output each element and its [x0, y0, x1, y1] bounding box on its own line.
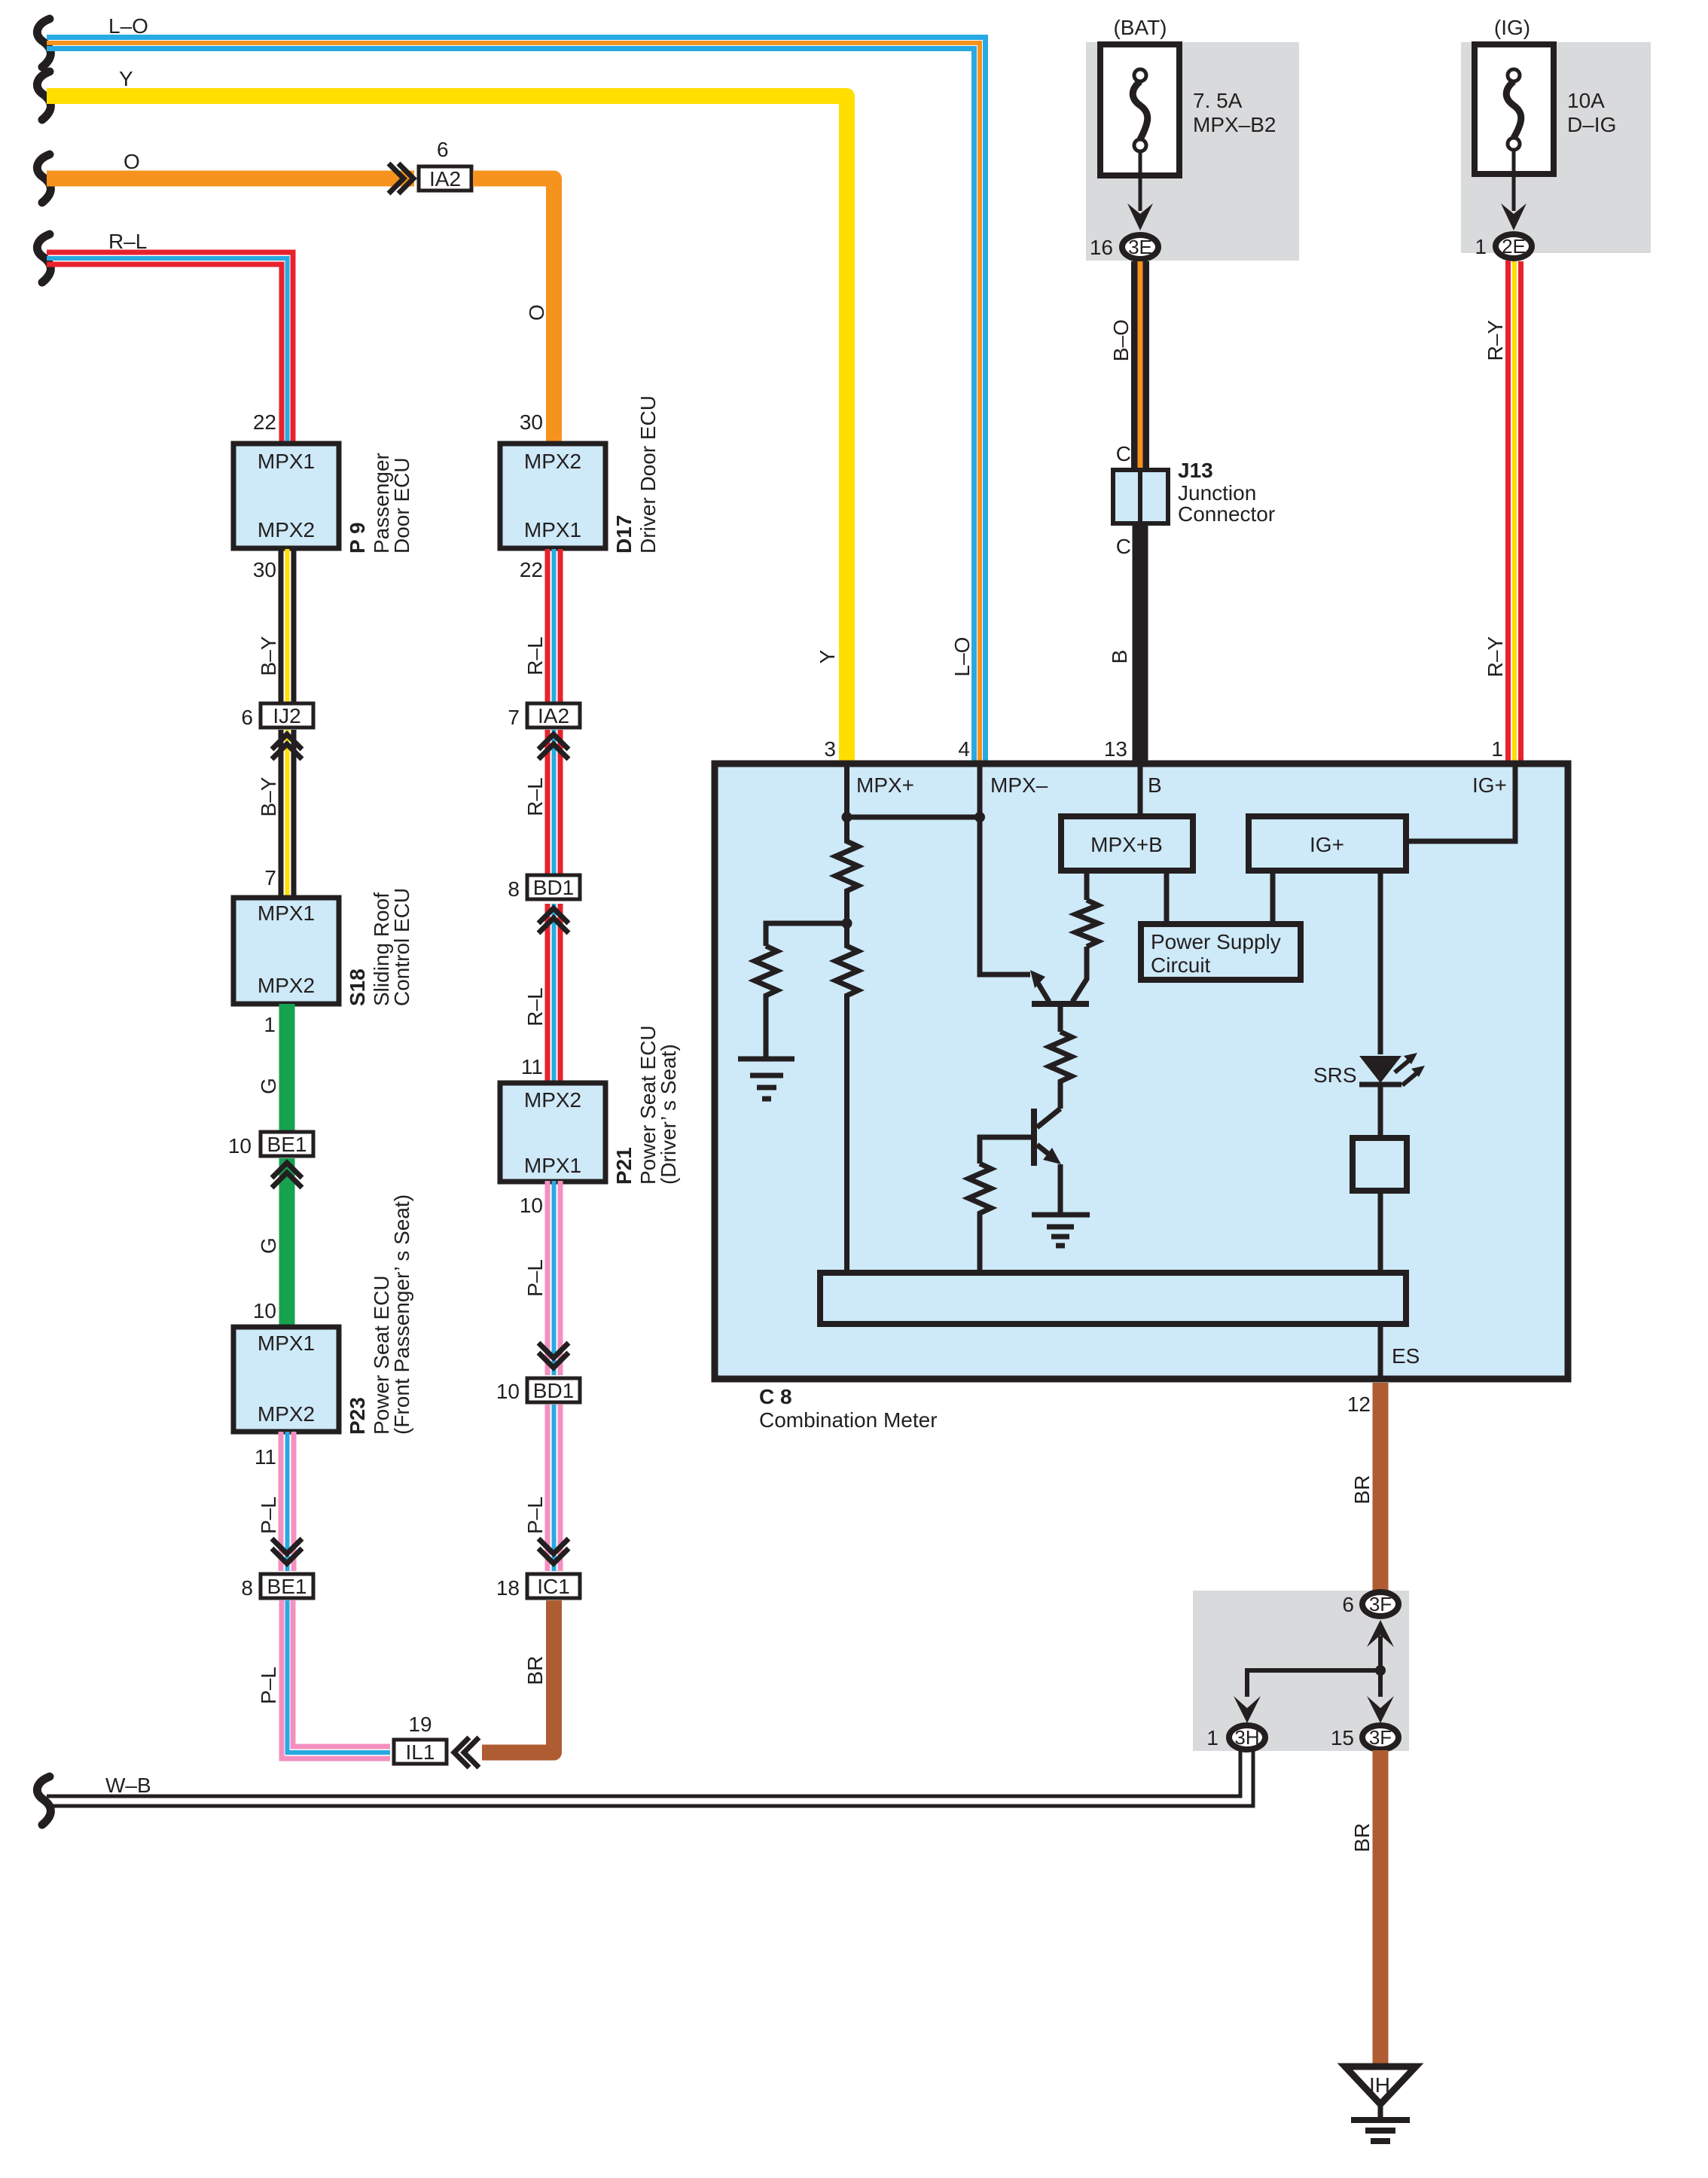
svg-text:P 9: P 9	[346, 522, 369, 554]
svg-text:IG+: IG+	[1310, 833, 1344, 856]
svg-text:P–L: P–L	[523, 1496, 547, 1534]
chevrons pointing up below connector BD1	[538, 908, 569, 933]
label S18 Sliding Roof Control ECU	[346, 888, 413, 1006]
wire W-B (white with black outline) from left edge to connector 3H	[47, 1750, 1253, 1806]
ECU box D17 (Driver Door ECU)	[500, 444, 605, 548]
wire R-L (red/blue/red) from left edge to pin 22 of P9	[47, 252, 293, 443]
svg-text:Door ECU: Door ECU	[390, 457, 413, 554]
wire MPX- node to transistor Q1 emitter	[980, 817, 1030, 975]
wire IG+ box to power supply circuit	[1270, 871, 1276, 924]
svg-text:(IG): (IG)	[1494, 16, 1530, 39]
svg-text:6: 6	[1342, 1593, 1354, 1616]
svg-text:IA2: IA2	[429, 167, 461, 191]
svg-text:Driver Door ECU: Driver Door ECU	[636, 395, 660, 554]
wire R-Y (red/yellow/red) from connector 2E to pin 1 of combination meter	[1508, 261, 1521, 762]
svg-text:12: 12	[1347, 1393, 1371, 1416]
svg-text:P23: P23	[346, 1397, 369, 1435]
svg-text:W–B: W–B	[105, 1774, 151, 1797]
svg-text:B–Y: B–Y	[257, 776, 280, 816]
wire IG+ box to SRS LED	[1378, 871, 1383, 1054]
svg-text:B: B	[1148, 773, 1162, 797]
ground G2 (inside meter, under Q2)	[1032, 1215, 1090, 1246]
svg-text:MPX2: MPX2	[524, 450, 581, 473]
wire MPX- pin line	[978, 767, 983, 817]
svg-text:Power Supply: Power Supply	[1151, 930, 1281, 953]
label P23 Power Seat ECU (Front Passenger's Seat)	[346, 1194, 413, 1435]
label J13 Junction Connector	[1178, 459, 1275, 526]
resistor R1 (on MPX+ line)	[836, 817, 859, 923]
svg-text:D–IG: D–IG	[1567, 113, 1616, 136]
wire B-Y (black/yellow/black) from pin 30 of P9 to connector IJ2	[281, 549, 294, 702]
junction dot	[1375, 1665, 1386, 1676]
svg-text:8: 8	[241, 1576, 253, 1600]
LED SRS indicator	[1359, 1053, 1425, 1085]
wire-break brace (Y wire)	[37, 72, 50, 120]
wire from node to R2	[766, 923, 847, 946]
ground symbol (bottom)	[1351, 2120, 1410, 2141]
junction block gray box (BAT side)	[1086, 42, 1299, 261]
wire ground stem	[1378, 2105, 1383, 2119]
wire O (orange) from left edge to connector IA2	[47, 171, 414, 187]
svg-text:Control ECU: Control ECU	[390, 888, 413, 1006]
svg-text:19: 19	[408, 1713, 432, 1736]
svg-text:R–L: R–L	[523, 636, 547, 675]
wire ES pin line	[1378, 1324, 1383, 1376]
svg-text:3: 3	[824, 737, 836, 761]
svg-text:P–L: P–L	[257, 1667, 280, 1704]
svg-text:MPX1: MPX1	[524, 518, 581, 541]
wire MPX+B box to R4	[1084, 874, 1090, 900]
svg-text:3F: 3F	[1369, 1726, 1392, 1749]
svg-text:7: 7	[264, 866, 276, 889]
arrow down above connector 3H	[1234, 1696, 1261, 1723]
wire P-L from connector BD1 lower to connector IC1	[547, 1405, 560, 1571]
internal box power supply circuit	[1141, 924, 1301, 980]
wire R-L from pin 22 of D17 to connector IA2	[547, 549, 560, 702]
fuse 7.5A MPX-B2	[1133, 69, 1148, 151]
chevrons pointing down above connector BE1 lower	[272, 1539, 302, 1563]
svg-text:BR: BR	[1350, 1823, 1374, 1853]
svg-text:22: 22	[253, 410, 276, 434]
svg-text:10: 10	[228, 1134, 252, 1158]
wire-break brace (R-L wire)	[37, 234, 50, 282]
connector IJ2	[261, 703, 313, 728]
wire resistor block to bus bar	[1378, 1191, 1383, 1273]
svg-text:Y: Y	[119, 67, 133, 90]
ECU box P21 (Power Seat ECU Driver's Seat)	[500, 1083, 605, 1182]
wire BR (brown) from connector 3F lower to ground IH	[1373, 1750, 1389, 2065]
wire-break brace (W-B wire)	[37, 1777, 50, 1825]
wire B (black) from junction connector J13 to pin 13 of combination meter	[1133, 523, 1148, 762]
wire G (green) from pin 1 of S18 to connector BE1	[279, 1004, 295, 1131]
svg-text:11: 11	[255, 1445, 276, 1469]
svg-text:B: B	[1108, 650, 1131, 664]
svg-text:B–Y: B–Y	[257, 636, 280, 676]
svg-text:O: O	[525, 304, 548, 321]
chevrons pointing down above connector BD1 lower	[538, 1343, 569, 1368]
svg-text:BD1: BD1	[533, 1379, 574, 1402]
connector BD1 (lower)	[527, 1378, 580, 1402]
svg-text:S18: S18	[346, 969, 369, 1006]
svg-text:10A: 10A	[1567, 89, 1605, 112]
svg-text:R–L: R–L	[108, 230, 147, 253]
fuse box D-IG	[1475, 44, 1554, 174]
wire from arrow to junction dot	[1378, 1636, 1383, 1670]
svg-text:R–L: R–L	[523, 987, 547, 1026]
node dot MPX+	[842, 812, 852, 822]
wire L-O (blue/orange/blue) from left edge to combination meter pin 4	[47, 38, 986, 763]
svg-text:10: 10	[253, 1299, 276, 1322]
resistor R5 (between Q1 and Q2)	[1049, 1032, 1072, 1109]
svg-text:R–L: R–L	[523, 777, 547, 816]
junction block gray box (bottom)	[1193, 1591, 1409, 1751]
label D17 Driver Door ECU	[612, 395, 660, 554]
resistor R2 (to ground)	[755, 946, 777, 1057]
svg-text:16: 16	[1090, 236, 1113, 259]
svg-text:3F: 3F	[1369, 1593, 1392, 1615]
label P 9 Passenger Door ECU	[346, 453, 413, 554]
svg-text:BE1: BE1	[267, 1575, 307, 1598]
connector IA2 (middle)	[527, 703, 580, 728]
connector 3F (upper)	[1362, 1592, 1398, 1616]
connector BE1 (lower)	[261, 1574, 313, 1598]
wire R-L from connector IA2 to connector BD1	[547, 730, 560, 875]
svg-text:B–O: B–O	[1109, 319, 1133, 361]
wire MPX+ pin line	[844, 767, 849, 817]
svg-text:13: 13	[1104, 737, 1127, 761]
wire from fuse to connector 3E	[1139, 151, 1142, 211]
transistor Q1 (PNP, MPX comparator)	[1030, 947, 1089, 1032]
arrow into connector 3E	[1127, 203, 1153, 230]
svg-text:MPX2: MPX2	[258, 1402, 315, 1426]
resistor R6 (Q2 base to bus bar)	[968, 1164, 991, 1273]
node dot MPX-	[974, 812, 985, 822]
svg-text:10: 10	[520, 1194, 543, 1217]
svg-text:7. 5A: 7. 5A	[1193, 89, 1243, 112]
wire-break brace (L-O wire)	[37, 19, 50, 67]
svg-text:Circuit: Circuit	[1151, 953, 1211, 977]
chevrons pointing right into connector IA2	[389, 163, 413, 194]
internal box IG+	[1249, 816, 1406, 871]
svg-text:BR: BR	[1350, 1475, 1374, 1505]
fuse 10A D-IG	[1506, 69, 1521, 150]
internal bus bar	[820, 1273, 1406, 1324]
svg-text:MPX2: MPX2	[258, 518, 315, 541]
svg-text:P–L: P–L	[257, 1496, 280, 1534]
svg-text:8: 8	[508, 877, 520, 901]
svg-text:G: G	[257, 1078, 280, 1094]
svg-text:IH: IH	[1369, 2073, 1390, 2097]
svg-text:IA2: IA2	[538, 704, 569, 728]
svg-text:MPX–: MPX–	[990, 773, 1048, 797]
svg-text:MPX1: MPX1	[258, 901, 315, 925]
internal resistor block (square)	[1353, 1138, 1407, 1191]
wire R-L from connector BD1 to pin 11 of P21	[547, 904, 560, 1082]
internal box MPX+B	[1061, 816, 1193, 871]
wire from fuse to connector 2E	[1512, 150, 1516, 211]
combination meter C8 box	[715, 764, 1568, 1379]
wire BR (brown) from connector IC1 to connector IL1	[482, 1600, 554, 1752]
svg-text:MPX1: MPX1	[524, 1154, 581, 1177]
connector BD1 (upper)	[527, 875, 580, 899]
svg-text:MPX+: MPX+	[856, 773, 914, 797]
wire Q2 base to R6	[980, 1137, 1031, 1164]
junction block gray box (IG side)	[1461, 42, 1651, 253]
node dot below R1	[842, 918, 852, 929]
svg-text:Connector: Connector	[1178, 502, 1275, 526]
svg-text:4: 4	[958, 737, 970, 761]
svg-text:IC1: IC1	[537, 1575, 570, 1598]
svg-text:O: O	[124, 150, 140, 173]
svg-text:P–L: P–L	[523, 1259, 547, 1297]
wire P-L (pink/blue/pink) from pin 11 of P23 to connector BE1 lower	[281, 1432, 294, 1571]
wire between MPX+ and MPX- nodes	[847, 815, 981, 820]
svg-text:18: 18	[496, 1576, 520, 1600]
svg-text:L–O: L–O	[950, 637, 974, 677]
svg-text:BR: BR	[523, 1656, 547, 1685]
svg-text:MPX1: MPX1	[258, 1332, 315, 1355]
svg-text:(Driver’ s Seat): (Driver’ s Seat)	[657, 1044, 680, 1185]
svg-text:BD1: BD1	[533, 876, 574, 899]
svg-text:MPX–B2: MPX–B2	[1193, 113, 1276, 136]
ground triangle IH	[1345, 2067, 1416, 2104]
wire from junction dot to 3H branch	[1247, 1670, 1380, 1697]
svg-text:1: 1	[1206, 1726, 1218, 1749]
svg-text:MPX2: MPX2	[524, 1088, 581, 1112]
arrow into connector 2E	[1501, 203, 1527, 230]
svg-text:1: 1	[264, 1013, 276, 1036]
svg-text:SRS: SRS	[1313, 1063, 1357, 1087]
wire-break brace (O wire)	[37, 154, 50, 203]
svg-text:Y: Y	[816, 649, 839, 663]
chevrons pointing up below connector IJ2	[272, 734, 302, 759]
svg-text:IJ2: IJ2	[273, 704, 300, 728]
svg-text:L–O: L–O	[108, 14, 148, 38]
svg-text:11: 11	[521, 1055, 543, 1078]
svg-text:C 8: C 8	[759, 1385, 792, 1408]
chevrons pointing down above connector IC1	[538, 1539, 569, 1563]
svg-text:G: G	[257, 1237, 280, 1254]
svg-text:P21: P21	[612, 1147, 636, 1185]
wire B-Y from connector IJ2 to pin 7 of S18	[281, 730, 294, 897]
junction connector J13	[1113, 468, 1168, 526]
svg-text:BE1: BE1	[267, 1133, 307, 1156]
svg-text:22: 22	[520, 558, 543, 581]
wire from junction dot to 3F lower	[1378, 1670, 1383, 1697]
arrow up below connector 3F	[1367, 1620, 1394, 1647]
svg-text:IG+: IG+	[1472, 773, 1507, 797]
wire P-L from pin 10 of P21 to connector BD1 lower	[547, 1181, 560, 1375]
svg-text:2E: 2E	[1502, 235, 1526, 258]
svg-text:D17: D17	[612, 515, 636, 554]
svg-text:30: 30	[520, 410, 543, 434]
svg-text:6: 6	[437, 138, 449, 161]
connector 3F (lower)	[1362, 1725, 1398, 1749]
svg-text:ES: ES	[1392, 1344, 1420, 1368]
ECU box P23 (Power Seat ECU Front Passenger's Seat)	[233, 1327, 339, 1432]
svg-text:Combination Meter: Combination Meter	[759, 1408, 938, 1432]
connector 3H	[1229, 1725, 1265, 1749]
svg-text:30: 30	[253, 558, 276, 581]
svg-text:(Front Passenger’ s Seat): (Front Passenger’ s Seat)	[390, 1194, 413, 1435]
connector IA2 (top)	[419, 166, 471, 191]
svg-text:Junction: Junction	[1178, 481, 1256, 505]
svg-text:1: 1	[1475, 235, 1487, 258]
ground G1 (inside meter, left)	[738, 1059, 795, 1099]
wire B pin to MPX+B box	[1138, 767, 1143, 816]
connector 2E	[1496, 234, 1532, 258]
wire IG+ pin to IG+ box	[1406, 767, 1515, 841]
svg-text:15: 15	[1331, 1726, 1354, 1749]
svg-text:(BAT): (BAT)	[1113, 16, 1167, 39]
svg-text:MPX1: MPX1	[258, 450, 315, 473]
arrow down above connector 3F lower	[1367, 1696, 1394, 1723]
connector IL1	[394, 1740, 447, 1764]
svg-text:J13: J13	[1178, 459, 1213, 482]
connector BE1 (upper)	[261, 1132, 313, 1156]
wire MPX+B box to power supply circuit	[1164, 871, 1170, 924]
svg-text:7: 7	[508, 706, 520, 729]
wire O (orange) from connector IA2 to pin 30 of D17	[473, 178, 554, 443]
wire BR (brown) from ES pin to connector 3F	[1373, 1383, 1389, 1592]
transistor Q2 (NPN, to ground)	[1031, 1109, 1061, 1215]
connector 3E	[1122, 235, 1158, 259]
ECU box S18 (Sliding Roof Control ECU)	[233, 898, 339, 1004]
svg-text:C: C	[1116, 535, 1131, 558]
chevrons pointing left out of connector IL1	[454, 1737, 479, 1768]
connector IC1	[527, 1574, 580, 1598]
resistor R4 (under MPX+B box)	[1075, 900, 1098, 947]
svg-text:10: 10	[496, 1380, 520, 1403]
svg-text:3E: 3E	[1128, 236, 1152, 258]
wire B-O (black/orange/black) from connector 3E to junction connector J13	[1131, 261, 1149, 470]
svg-text:R–Y: R–Y	[1484, 636, 1507, 677]
label P21 Power Seat ECU (Driver's Seat)	[612, 1025, 680, 1185]
svg-text:6: 6	[241, 706, 253, 729]
svg-text:MPX2: MPX2	[258, 974, 315, 997]
fuse box MPX-B2	[1100, 44, 1179, 175]
resistor R3 (MPX+ line to bus bar)	[836, 923, 859, 1273]
svg-text:MPX+B: MPX+B	[1090, 833, 1163, 856]
ECU box P9 (Passenger Door ECU)	[233, 444, 339, 548]
svg-text:IL1: IL1	[406, 1740, 435, 1764]
wire Y (yellow) from left edge to combination meter pin 3	[47, 96, 847, 763]
wire G (green) from connector BE1 to pin 10 of P23	[279, 1158, 295, 1326]
svg-text:C: C	[1116, 442, 1131, 465]
wire P-L from connector BE1 lower to connector IL1	[282, 1600, 390, 1759]
chevrons pointing up below connector IA2	[538, 734, 569, 759]
chevrons pointing up below connector BE1	[272, 1163, 302, 1188]
svg-text:3H: 3H	[1234, 1726, 1259, 1749]
svg-text:R–Y: R–Y	[1484, 319, 1507, 361]
svg-text:1: 1	[1491, 737, 1503, 761]
wire LED to resistor block	[1378, 1087, 1383, 1138]
